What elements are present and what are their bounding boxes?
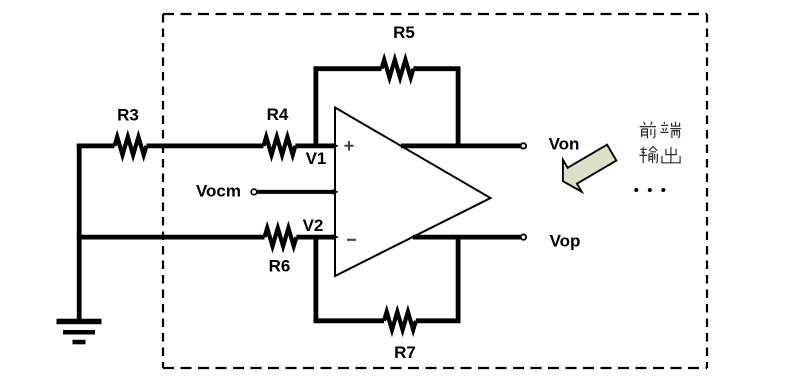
- resistor R5: [382, 60, 414, 78]
- svg-text:R7: R7: [394, 343, 416, 362]
- wire V1 input segment left: [77, 143, 115, 148]
- svg-text:V1: V1: [306, 149, 327, 168]
- wire V2 to op-amp - input: [296, 235, 333, 240]
- ellipsis dots: [634, 188, 638, 192]
- arrowhead at + input: [333, 143, 339, 149]
- wire V1 to op-amp + input: [295, 143, 333, 148]
- resistor R6: [265, 228, 297, 246]
- arrowhead at - input: [333, 234, 339, 240]
- svg-text:R5: R5: [393, 23, 415, 42]
- svg-text:Von: Von: [549, 134, 580, 153]
- svg-text:R6: R6: [269, 257, 291, 276]
- op-amp + sign: [344, 141, 353, 151]
- ground: [57, 319, 102, 345]
- wire Vocm to op-amp: [258, 190, 334, 194]
- wire Vop output: [413, 235, 521, 240]
- svg-text:V2: V2: [303, 216, 324, 235]
- resistor R3: [115, 137, 147, 155]
- arrowhead at Vocm input: [333, 189, 339, 195]
- terminal Vop: [521, 234, 526, 239]
- svg-text:Vop: Vop: [550, 232, 581, 251]
- op-amp - sign: [347, 239, 356, 241]
- dashed boundary box: [163, 13, 707, 15]
- chinese label 出: [662, 147, 680, 163]
- wire Von output: [401, 143, 521, 148]
- wire V1 input middle segment: [146, 143, 263, 148]
- wire left vertical (R3 node to ground): [77, 144, 82, 320]
- wire top feedback right vertical: [413, 69, 458, 146]
- resistor R7: [384, 312, 416, 330]
- wire V2 input segment left: [77, 235, 265, 240]
- Vocm terminal circle: [251, 189, 257, 195]
- wire top feedback left vertical: [316, 69, 382, 148]
- terminal Von: [521, 143, 526, 148]
- chinese label 输: [639, 146, 657, 163]
- chinese label 前: [640, 122, 656, 139]
- chinese label 端: [660, 122, 680, 138]
- svg-text:R3: R3: [117, 106, 139, 125]
- block arrow (front-end output pointer): [554, 137, 622, 198]
- op-amp U1: [335, 108, 491, 277]
- resistor R4: [264, 137, 296, 155]
- svg-text:R4: R4: [267, 105, 289, 124]
- wire bottom feedback left vertical: [316, 235, 384, 321]
- svg-text:Vocm: Vocm: [196, 182, 241, 201]
- wire bottom feedback right vertical: [416, 237, 458, 321]
